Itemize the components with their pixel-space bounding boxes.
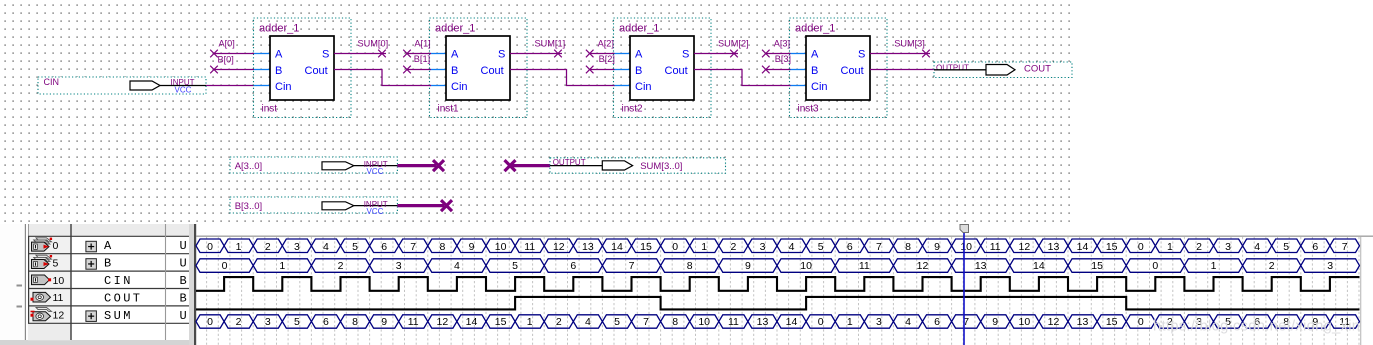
svg-text:11: 11 [408, 316, 419, 328]
svg-text:A: A [635, 49, 643, 61]
wire net B[1] with open-end X [403, 54, 431, 73]
svg-text:3: 3 [876, 316, 882, 328]
svg-text:3: 3 [1225, 241, 1231, 253]
svg-text:U: U [180, 239, 187, 253]
wire net A[0] with open-end X [210, 39, 254, 58]
svg-text:Cin: Cin [275, 81, 292, 93]
svg-text:7: 7 [876, 241, 882, 253]
svg-text:6: 6 [934, 316, 940, 328]
svg-text:4: 4 [585, 316, 591, 328]
svg-text:10: 10 [53, 275, 65, 287]
svg-text:2: 2 [338, 260, 344, 272]
input pin B[3..0] [230, 197, 397, 216]
svg-text:12: 12 [437, 316, 449, 328]
svg-text:B: B [451, 65, 458, 77]
waveform bus trace A [196, 239, 1360, 253]
svg-text:1: 1 [701, 241, 707, 253]
svg-text:8: 8 [439, 241, 445, 253]
svg-text:6: 6 [323, 316, 329, 328]
svg-text:11: 11 [728, 316, 739, 328]
svg-text:7: 7 [629, 260, 635, 272]
svg-text:7: 7 [1342, 241, 1348, 253]
svg-text:1: 1 [847, 316, 853, 328]
svg-text:Cout: Cout [665, 65, 688, 77]
svg-text:1: 1 [527, 316, 533, 328]
wire net B[0] with open-end X [210, 54, 254, 73]
svg-text:5: 5 [512, 260, 518, 272]
svg-text:2: 2 [730, 241, 736, 253]
svg-text:8: 8 [352, 316, 358, 328]
svg-text:S: S [322, 49, 329, 61]
svg-text:12: 12 [1019, 241, 1031, 253]
svg-text:3: 3 [265, 316, 271, 328]
svg-text:5: 5 [53, 257, 59, 269]
svg-text:14: 14 [1033, 260, 1045, 272]
wire net B[2] with open-end X [586, 54, 615, 73]
output pin COUT [934, 62, 1072, 78]
svg-text:adder_1: adder_1 [795, 23, 835, 35]
svg-text:11: 11 [53, 292, 64, 304]
svg-text:A: A [811, 49, 819, 61]
svg-text:14: 14 [611, 241, 623, 253]
svg-text:Cout: Cout [841, 65, 864, 77]
svg-text:adder_1: adder_1 [435, 23, 475, 35]
svg-text:SUM: SUM [104, 309, 133, 323]
svg-text:2: 2 [265, 241, 271, 253]
schematic grid background [0, 0, 1071, 222]
svg-text:VCC: VCC [175, 86, 192, 95]
svg-text:10: 10 [960, 241, 972, 253]
svg-text:S: S [498, 49, 505, 61]
svg-text:10: 10 [1019, 316, 1031, 328]
time cursor [960, 225, 969, 345]
end-of-simulation boundary line [1360, 237, 1362, 345]
waveform signal row header B [32, 255, 187, 271]
svg-text:6: 6 [1312, 241, 1318, 253]
svg-text:Cin: Cin [451, 81, 468, 93]
svg-text:B[0]: B[0] [218, 54, 234, 64]
svg-text:B: B [811, 65, 818, 77]
wire net COUT [870, 69, 934, 71]
waveform bus trace B [196, 259, 1360, 273]
svg-text:4: 4 [905, 316, 911, 328]
svg-text:3: 3 [760, 241, 766, 253]
svg-text:5: 5 [818, 241, 824, 253]
svg-text:8: 8 [905, 241, 911, 253]
svg-text:inst2: inst2 [622, 104, 644, 115]
svg-text:10: 10 [495, 241, 507, 253]
wire carry chain c2 (Cout to next Cin) [510, 70, 615, 86]
waveform bus trace SUM [196, 315, 1360, 328]
waveform digital trace CIN [196, 277, 1360, 291]
svg-text:A: A [451, 49, 459, 61]
svg-text:A[0]: A[0] [219, 39, 235, 49]
svg-text:2: 2 [556, 316, 562, 328]
svg-text:15: 15 [1091, 260, 1103, 272]
svg-text:B: B [180, 291, 187, 305]
svg-text:0: 0 [818, 316, 824, 328]
svg-text:13: 13 [582, 241, 594, 253]
svg-text:1: 1 [1167, 241, 1173, 253]
input pin A[3..0] [230, 157, 397, 176]
svg-text:5: 5 [1283, 241, 1289, 253]
svg-text:B: B [275, 65, 282, 77]
svg-text:VCC: VCC [367, 207, 384, 216]
svg-text:3: 3 [396, 260, 402, 272]
svg-text:U: U [180, 309, 187, 323]
svg-text:A[1]: A[1] [414, 39, 430, 49]
output pin SUM[3..0] [550, 158, 726, 173]
svg-text:inst: inst [262, 104, 278, 115]
input pin CIN [38, 77, 206, 95]
svg-text:inst1: inst1 [438, 104, 460, 115]
svg-text:Cout: Cout [481, 65, 504, 77]
svg-text:https://blog.csdn.net/xiong_xi: https://blog.csdn.net/xiong_xin [1153, 319, 1360, 335]
svg-text:1: 1 [1211, 260, 1217, 272]
svg-text:9: 9 [469, 241, 475, 253]
svg-text:0: 0 [1152, 260, 1158, 272]
svg-text:0: 0 [207, 241, 213, 253]
svg-text:U: U [180, 257, 187, 271]
svg-text:3: 3 [1327, 260, 1333, 272]
waveform left panel background [28, 224, 189, 340]
wire net A[2] with open-end X [586, 39, 615, 58]
svg-text:12: 12 [917, 260, 929, 272]
svg-text:10: 10 [698, 316, 710, 328]
waveform signal row header COUT [31, 291, 187, 305]
svg-text:11: 11 [990, 241, 1001, 253]
svg-text:15: 15 [640, 241, 652, 253]
svg-text:SUM[3]: SUM[3] [894, 38, 925, 48]
watermark [1153, 319, 1360, 335]
svg-text:2: 2 [1196, 241, 1202, 253]
svg-text:11: 11 [859, 260, 870, 272]
waveform time gridlines [207, 237, 1359, 345]
svg-text:0: 0 [1138, 316, 1144, 328]
svg-text:COUT: COUT [1024, 64, 1051, 75]
svg-text:7: 7 [410, 241, 416, 253]
svg-text:4: 4 [454, 260, 460, 272]
svg-text:15: 15 [1106, 316, 1118, 328]
svg-text:6: 6 [570, 260, 576, 272]
svg-text:SUM[1]: SUM[1] [535, 39, 566, 49]
svg-text:8: 8 [687, 260, 693, 272]
svg-text:0: 0 [1138, 241, 1144, 253]
svg-text:S: S [858, 49, 865, 61]
svg-text:A: A [104, 239, 114, 253]
svg-text:9: 9 [745, 260, 751, 272]
svg-text:5: 5 [352, 241, 358, 253]
adder_1 component inst3 [790, 18, 888, 118]
svg-text:5: 5 [294, 316, 300, 328]
svg-text:adder_1: adder_1 [619, 23, 659, 35]
svg-text:B[3..0]: B[3..0] [235, 201, 262, 212]
svg-text:14: 14 [466, 316, 478, 328]
svg-text:4: 4 [1254, 241, 1260, 253]
adder_1 component inst2 [614, 18, 712, 118]
bus wire SUM[3..0] with bold open-end X [505, 160, 551, 171]
svg-text:SUM[2]: SUM[2] [718, 39, 749, 49]
wire net SUM[0] from S output, open-end X [334, 39, 388, 58]
svg-text:15: 15 [1106, 241, 1118, 253]
svg-text:Cin: Cin [635, 81, 652, 93]
waveform panel left gutter [0, 224, 189, 345]
bus wire A[3..0] with bold open-end X [397, 160, 444, 171]
wire CIN net [206, 85, 254, 87]
waveform digital trace COUT [196, 297, 1360, 310]
svg-text:A[2]: A[2] [598, 39, 614, 49]
svg-text:14: 14 [786, 316, 798, 328]
wire net SUM[2] from S output, open-end X [694, 39, 749, 58]
svg-text:9: 9 [934, 241, 940, 253]
svg-text:SUM[0]: SUM[0] [358, 39, 389, 49]
svg-text:11: 11 [524, 241, 535, 253]
svg-text:9: 9 [992, 316, 998, 328]
svg-text:SUM[3..0]: SUM[3..0] [640, 161, 682, 172]
svg-text:1: 1 [236, 241, 242, 253]
svg-text:5: 5 [614, 316, 620, 328]
wire net A[1] with open-end X [403, 39, 431, 58]
bus wire B[3..0] with bold open-end X [397, 200, 452, 211]
svg-text:3: 3 [294, 241, 300, 253]
svg-text:6: 6 [381, 241, 387, 253]
svg-text:0: 0 [222, 260, 228, 272]
wire carry chain c1 (Cout to next Cin) [334, 70, 431, 86]
svg-text:OUTPUT: OUTPUT [936, 64, 969, 73]
svg-text:7: 7 [643, 316, 649, 328]
wire net A[3] with open-end X [762, 39, 791, 58]
svg-text:4: 4 [323, 241, 329, 253]
svg-text:B[2]: B[2] [599, 54, 615, 64]
waveform signal row header A [32, 238, 187, 254]
wire net SUM[1] from S output, open-end X [510, 39, 565, 58]
svg-text:12: 12 [53, 310, 65, 322]
waveform panel gridlines/frame [28, 224, 1373, 345]
svg-text:Cout: Cout [305, 65, 328, 77]
svg-text:8: 8 [672, 316, 678, 328]
svg-text:CIN: CIN [44, 77, 60, 87]
svg-text:B[3]: B[3] [775, 54, 791, 64]
svg-text:0: 0 [672, 241, 678, 253]
svg-text:6: 6 [847, 241, 853, 253]
svg-text:12: 12 [1048, 316, 1060, 328]
svg-text:14: 14 [1077, 241, 1089, 253]
svg-text:15: 15 [495, 316, 507, 328]
svg-text:4: 4 [789, 241, 795, 253]
svg-text:CIN: CIN [104, 274, 133, 288]
svg-text:0: 0 [53, 240, 59, 252]
svg-text:B: B [180, 274, 187, 288]
adder_1 component inst [254, 18, 352, 118]
svg-text:B: B [635, 65, 642, 77]
wire net B[3] with open-end X [762, 54, 791, 73]
svg-text:VCC: VCC [367, 167, 384, 176]
svg-text:A[3]: A[3] [774, 39, 790, 49]
svg-text:13: 13 [975, 260, 987, 272]
svg-text:adder_1: adder_1 [259, 23, 299, 35]
svg-text:B[1]: B[1] [414, 54, 430, 64]
svg-text:2: 2 [1269, 260, 1275, 272]
svg-text:13: 13 [757, 316, 769, 328]
svg-text:2: 2 [236, 316, 242, 328]
svg-text:Cin: Cin [811, 81, 828, 93]
svg-text:A: A [275, 49, 283, 61]
svg-text:A[3..0]: A[3..0] [235, 161, 262, 172]
svg-text:10: 10 [800, 260, 812, 272]
svg-text:COUT: COUT [104, 291, 142, 305]
svg-text:13: 13 [1077, 316, 1089, 328]
svg-text:B: B [104, 257, 114, 271]
svg-text:13: 13 [1048, 241, 1060, 253]
svg-text:inst3: inst3 [798, 104, 820, 115]
waveform signal row header CIN [32, 274, 187, 288]
svg-text:0: 0 [207, 316, 213, 328]
wire carry chain c3 (Cout to next Cin) [694, 70, 791, 86]
waveform signal row header SUM [31, 307, 187, 322]
svg-text:1: 1 [279, 260, 285, 272]
wire net SUM[3] from inst3 S, open-end X [870, 38, 930, 57]
svg-text:12: 12 [553, 241, 565, 253]
adder_1 component inst1 [430, 18, 528, 118]
svg-text:S: S [682, 49, 689, 61]
svg-text:9: 9 [381, 316, 387, 328]
